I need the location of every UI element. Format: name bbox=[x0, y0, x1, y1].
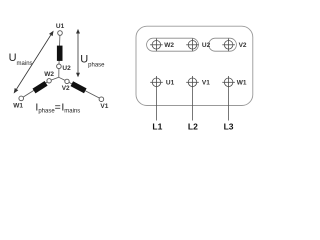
terminal V2 bbox=[65, 79, 69, 83]
terminal V1 (screw) bbox=[186, 76, 199, 89]
svg-text:V2: V2 bbox=[239, 42, 247, 49]
svg-text:W2: W2 bbox=[164, 42, 174, 49]
svg-text:L2: L2 bbox=[188, 122, 198, 132]
wire W1 to L3 bbox=[228, 89, 230, 121]
Uphase arrow (double headed, along winding U) bbox=[76, 29, 80, 77]
svg-text:U2: U2 bbox=[62, 65, 71, 72]
wire U1 to U2 (under winding U) bbox=[58, 35, 61, 64]
svg-text:V1: V1 bbox=[100, 103, 108, 110]
terminal V2 (screw) bbox=[222, 39, 235, 52]
Umains arrow (double headed, W1 to U1) bbox=[14, 31, 54, 94]
wire W2 to W1 (under winding W) bbox=[23, 82, 47, 97]
terminal U1 (screw) bbox=[150, 76, 163, 89]
svg-text:V2: V2 bbox=[62, 85, 70, 92]
star link bar V2 bbox=[209, 38, 237, 51]
terminal W2 (screw) bbox=[150, 39, 163, 52]
wire star point to V2 bbox=[59, 77, 65, 80]
star link bar W2-U2 bbox=[147, 38, 199, 51]
terminal W2 bbox=[47, 79, 51, 83]
terminal V1 bbox=[99, 97, 104, 102]
wire V2 to V1 (under winding V) bbox=[69, 82, 99, 98]
svg-text:U1: U1 bbox=[166, 80, 175, 87]
svg-text:U2: U2 bbox=[202, 42, 211, 49]
winding V (phase V coil) bbox=[72, 84, 86, 91]
terminal W1 bbox=[19, 96, 24, 101]
svg-text:L3: L3 bbox=[224, 122, 234, 132]
winding U (phase U coil) bbox=[57, 46, 63, 61]
terminal U2 (screw) bbox=[186, 39, 199, 52]
svg-text:L1: L1 bbox=[152, 122, 162, 132]
svg-text:W1: W1 bbox=[13, 103, 23, 110]
terminal U2 bbox=[57, 64, 62, 69]
svg-text:W2: W2 bbox=[44, 71, 54, 78]
svg-text:U1: U1 bbox=[56, 23, 65, 30]
svg-text:W1: W1 bbox=[237, 80, 247, 87]
wire star point to W2 bbox=[51, 77, 59, 80]
wire U2 to star point bbox=[58, 69, 60, 78]
svg-text:V1: V1 bbox=[202, 80, 210, 87]
winding W (phase W coil) bbox=[34, 83, 46, 91]
terminal box outline bbox=[136, 26, 253, 105]
wire U1 to L1 bbox=[156, 89, 158, 121]
terminal W1 (screw) bbox=[222, 76, 235, 89]
terminal U1 bbox=[58, 31, 63, 36]
wire V1 to L2 bbox=[192, 89, 194, 121]
